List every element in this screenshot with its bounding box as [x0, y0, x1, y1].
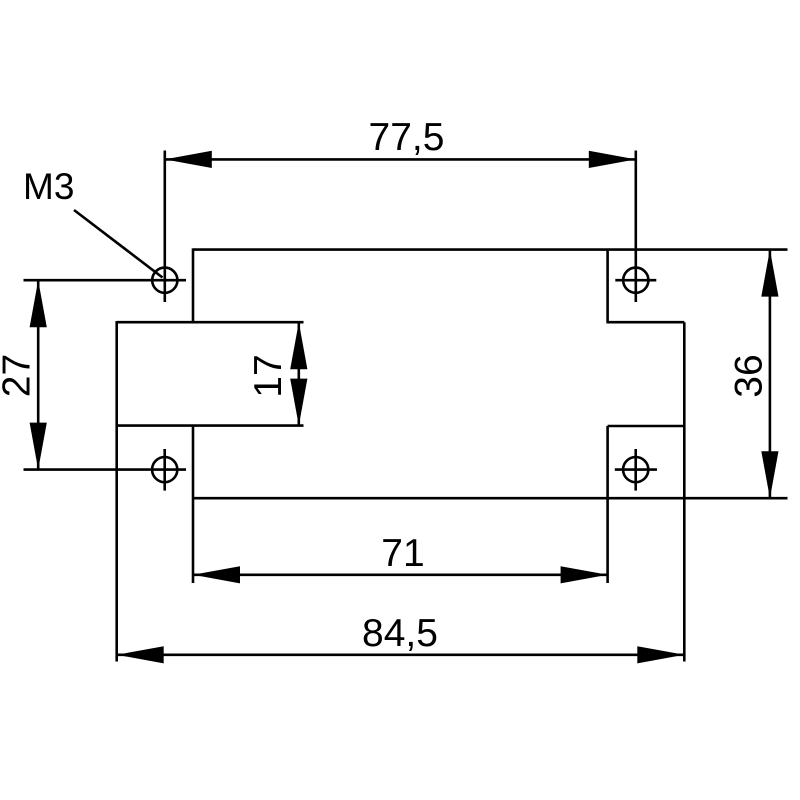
right step vertical lower (extended down as extension line for 71) [606, 426, 609, 583]
svg-text:M3: M3 [23, 166, 74, 207]
dimension 77,5 [165, 116, 636, 168]
svg-text:77,5: 77,5 [369, 116, 445, 159]
hole BL [24, 449, 187, 491]
svg-text:84,5: 84,5 [362, 612, 438, 655]
dimension 84,5 [117, 612, 685, 663]
svg-text:36: 36 [728, 354, 771, 397]
dimension 27 [0, 280, 47, 469]
svg-text:27: 27 [0, 354, 39, 397]
outline bottom edge (extended right as extension line for 36) [193, 497, 788, 500]
label M3 with leader [23, 166, 163, 278]
left wing left edge (extended down as extension line for 84,5) [115, 321, 118, 662]
right step horizontal lower [608, 425, 685, 428]
outline left edge upper segment [192, 248, 195, 322]
outline top edge (extended right as extension line for 36) [193, 248, 788, 251]
dimension 36 [728, 250, 779, 499]
hole TL M3 [24, 151, 187, 303]
outline left edge lower segment (extended down as extension line for 71) [192, 426, 195, 583]
left wing top edge (extended right as extension line for 17) [117, 321, 304, 324]
hole TR [615, 151, 656, 303]
svg-text:71: 71 [381, 532, 424, 575]
dimension 71 [193, 532, 608, 583]
right step vertical upper [606, 250, 609, 323]
left wing bottom edge (extended right as extension line for 17) [117, 424, 304, 427]
svg-text:17: 17 [247, 354, 290, 397]
dimension 17 [247, 322, 307, 425]
hole BR [615, 449, 657, 491]
right wing outer edge (extended down as extension line for 84,5) [683, 322, 686, 661]
right step horizontal upper [606, 321, 684, 324]
